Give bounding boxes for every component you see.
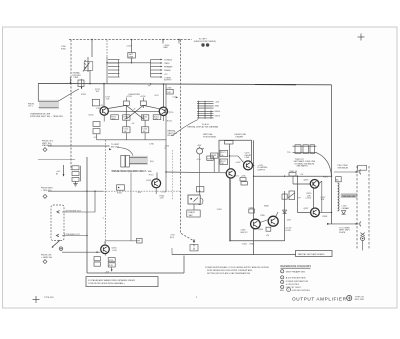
transistor Q714 collector wire [163, 84, 165, 107]
ref item 2 [281, 276, 306, 280]
svg-text:POWER SUPPLIES AND +12V FLOATI: POWER SUPPLIES AND +12V FLOATING SUPPLY … [205, 266, 270, 269]
svg-text:CONDITIONS GIVEN WITH DIAGRAM: CONDITIONS GIVEN WITH DIAGRAM ◇ [88, 282, 125, 285]
label SIGNAL FEEDTHRU PINS [73, 72, 82, 80]
resistor R577 box [241, 182, 247, 185]
svg-text:THRU: THRU [164, 63, 170, 65]
junction dots on collector wire [89, 83, 164, 85]
label VERTICAL POSITIONING [203, 133, 217, 138]
node dots on top rail [91, 39, 180, 41]
junction dots misc [86, 62, 332, 241]
junction cross [193, 240, 195, 242]
lower section dashed edge [104, 140, 106, 256]
wire x=131.5 into rail [131, 58, 133, 63]
input terminator box T740a [121, 155, 125, 167]
svg-text:(DC): (DC) [170, 237, 175, 239]
emitter resistor R712 box [123, 115, 130, 120]
transistor Q704 [100, 107, 108, 115]
svg-text:LINE: LINE [245, 157, 250, 159]
ref item 3 [281, 280, 309, 285]
svg-text:1M: 1M [124, 131, 127, 133]
svg-text:(-75V): (-75V) [306, 198, 312, 200]
label PIN VOLTAGES note [338, 165, 349, 169]
collector wire lower to junction [319, 211, 331, 213]
switch contact block S701 [84, 62, 93, 71]
wire CH2 input [48, 145, 110, 147]
supply stub wires [126, 98, 143, 102]
svg-text:POSITIONING: POSITIONING [203, 137, 217, 139]
wire collector Q743 riser [156, 173, 158, 180]
svg-text:-15V: -15V [137, 192, 142, 194]
svg-text:(DEFLECTION PLATES): (DEFLECTION PLATES) [194, 40, 216, 43]
transistor Q714 [159, 107, 167, 115]
connector feed wires to interconnect [151, 60, 161, 78]
collector wire Q576 to bus [253, 164, 254, 166]
transistor Q586 [268, 216, 278, 226]
bracket line [80, 166, 82, 182]
capacitor C712 box [123, 127, 130, 133]
svg-text:SEE PARTS: SEE PARTS [297, 165, 309, 168]
supply resistor R701 box [92, 99, 99, 106]
main board dashed outline right edge [180, 40, 194, 251]
transistor Q763 [101, 245, 110, 254]
wire A trigger branch [62, 191, 95, 212]
upper plate pin [356, 170, 361, 175]
resistor R748 box [207, 156, 213, 160]
grid connector pin E2 [206, 43, 209, 46]
resistor R572 box [220, 159, 228, 164]
interstage wire y=176.2 [254, 175, 332, 177]
curve from T590 to output wire [316, 152, 332, 176]
emitter link wire [313, 188, 315, 208]
wire x=166 trunk [165, 84, 167, 191]
emitter degeneration wires [104, 115, 163, 140]
svg-text:PINS: PINS [74, 77, 79, 79]
arrowhead trig jack [63, 174, 65, 177]
wire trig signal dashed continuation [103, 190, 180, 192]
svg-text:SETTING BOTH PLATE LOAD TERMIN: SETTING BOTH PLATE LOAD TERMINATIONS [207, 272, 251, 275]
wire from DL70 rising to amp [59, 89, 80, 101]
registration mark bottom-left [33, 296, 40, 303]
collector wire Q586 up [276, 212, 279, 217]
delay line DL740 hatched block [130, 156, 148, 165]
svg-text:+15V: +15V [197, 145, 202, 147]
wire x=293 branch [292, 176, 294, 184]
wire curve into DL drive [117, 148, 133, 156]
scattered value labels [81, 86, 329, 238]
long bus x=253.6 [253, 140, 255, 254]
ref item 1 [281, 270, 306, 274]
wire stub from rail x=92 [91, 40, 93, 58]
label TRANSMISSION LINE [30, 113, 63, 118]
supply arrow -15V [111, 267, 113, 271]
wire into Q763 base [62, 251, 100, 253]
svg-text:THERMAL BAL: THERMAL BAL [342, 195, 357, 198]
capacitor C765 box [94, 262, 100, 266]
wire mid trunk x=131 [130, 173, 132, 241]
svg-text:VERT PREAMP GEN: VERT PREAMP GEN [286, 270, 306, 273]
neon stack box B587 [336, 177, 342, 182]
wire input to Q574 base [166, 171, 226, 174]
grid connector pin E1 [201, 43, 204, 46]
arrowhead junction [327, 223, 330, 225]
main collector wire long horizontal [38, 83, 331, 84]
wire x=321.8 [321, 181, 323, 212]
emitter resistor R721 box [153, 115, 161, 120]
cross-coupling wire A [108, 105, 143, 119]
lever pivot dot [52, 246, 54, 248]
arrowhead into base [97, 251, 100, 253]
svg-text:FAN: FAN [164, 46, 168, 49]
svg-text:+125V: +125V [126, 96, 133, 98]
bottom rail wire y=273 [87, 272, 184, 274]
svg-text:& CIRCUITS N: & CIRCUITS N [286, 284, 300, 286]
wire B trigger branch [62, 235, 87, 237]
rail riser x=184 [183, 256, 185, 274]
node diamond gate [43, 260, 47, 264]
upper plate feed wire [334, 171, 359, 173]
label C700 R700 [61, 46, 67, 50]
label C576 above [245, 153, 252, 160]
wire y=62.8 cross rail [107, 62, 151, 64]
svg-text:CERAM: CERAM [342, 207, 350, 210]
terminator network T590 boxes [293, 145, 317, 154]
delay line DL70 hatched block [39, 100, 59, 109]
relay coil curl [199, 198, 203, 205]
label ±12V SUPPLY [258, 165, 268, 172]
capacitor C707 box [93, 122, 100, 127]
wire Q763 collector riser [104, 241, 106, 245]
wire TP570 drop [229, 144, 231, 169]
label left of Q584 [241, 230, 249, 234]
label L CER [342, 206, 350, 210]
left bus wire x=87 [86, 157, 88, 273]
svg-text:A TRIGGER OUT: A TRIGGER OUT [66, 209, 82, 212]
wire trig signal [48, 190, 103, 192]
transistor Q594 [310, 180, 319, 189]
svg-text:PLATE: PLATE [339, 231, 346, 234]
wire x=90 drop [89, 70, 91, 83]
wire down to delay line input [37, 83, 39, 101]
svg-text:STRIPLINE VERT SIG ─ TERM 93Ω: STRIPLINE VERT SIG ─ TERM 93Ω [30, 116, 63, 118]
wire Q743 emitter down [155, 188, 157, 194]
wire to lower plate pin [328, 223, 359, 225]
svg-text:+1.6V: +1.6V [112, 250, 118, 252]
label left of DL70 [28, 103, 34, 107]
inner board dashed edge [106, 40, 108, 58]
trig jack feed wire [63, 165, 65, 176]
base wire Q586 [260, 220, 268, 223]
svg-text:SHOWN AT: SHOWN AT [338, 167, 349, 170]
transistor Q704 collector wire [103, 84, 105, 107]
base rail wire [108, 110, 159, 112]
transistor Q574 [226, 169, 235, 178]
resistor R753 box [197, 187, 204, 192]
label +12.2V [285, 228, 292, 232]
svg-text:BUF 52: BUF 52 [241, 232, 249, 234]
svg-text:TRACE: TRACE [188, 211, 195, 214]
node diamond CH2 [43, 148, 47, 152]
resistor R707 box [93, 129, 100, 134]
label under T590 [294, 159, 316, 168]
registration mark top-right [358, 34, 365, 41]
svg-text:VOLTAGES AND WAVEFORMS OBTAINE: VOLTAGES AND WAVEFORMS OBTAINED UNDER [88, 279, 135, 282]
svg-text:SEE: SEE [280, 290, 285, 292]
emitter resistor R722 box [141, 115, 148, 120]
CRT boundary dashed right [368, 166, 370, 250]
svg-text:GND: GND [215, 106, 220, 108]
collector load resistor R716 box [140, 101, 146, 105]
wire relay drop [193, 204, 195, 210]
svg-text:R581 56: R581 56 [290, 171, 298, 173]
geometry mesh terminal [360, 233, 364, 236]
resistor R709 box [166, 89, 173, 94]
resistor R576 box [240, 178, 246, 181]
label FROM CH 2 [42, 141, 54, 148]
ground symbol [73, 181, 77, 186]
wire base upper output [293, 183, 310, 185]
contact arrow B [56, 234, 59, 237]
svg-text:+ GATE SIG: + GATE SIG [41, 256, 52, 259]
heavy emitter wire Q574 down [229, 178, 231, 241]
connector arrowheads [161, 59, 163, 78]
label TO VERT SIG OUT [111, 144, 120, 148]
test point box TP570 [224, 141, 233, 144]
collector load resistor R706 box [123, 101, 129, 105]
svg-text:FOR DECOUPLING: FOR DECOUPLING [292, 290, 310, 292]
label R595 group [306, 193, 313, 200]
output connector grid J70 [197, 101, 214, 119]
riser x=172 [171, 248, 173, 255]
wire stub x=179 [178, 40, 180, 44]
wire x=284.6 branch [284, 191, 286, 241]
emitter resistor R711 box [111, 115, 119, 120]
label box TRACE SEP [187, 210, 200, 217]
capacitor C569 box [211, 153, 218, 158]
svg-text:DISPLAY MODE SWITCHING CIRC: DISPLAY MODE SWITCHING CIRCUIT [111, 170, 147, 173]
switch box dashed S764 [51, 205, 64, 241]
thermistor box RT701 [128, 53, 136, 59]
relay K741 box [188, 195, 200, 204]
svg-text:PARTIAL VERT AMP BOARD: PARTIAL VERT AMP BOARD [298, 253, 325, 256]
switch SW701 lever [83, 57, 90, 72]
small box right [358, 165, 367, 170]
svg-text:Q574: Q574 [234, 176, 240, 178]
inner dashed edge mid [172, 150, 174, 200]
wire stub x=131.5 [131, 40, 133, 53]
switch lever SW760 [53, 240, 61, 247]
svg-text:8.2K: 8.2K [109, 265, 114, 267]
svg-text:SUPPLY: SUPPLY [258, 169, 266, 171]
label FROM PLUG-IN [41, 255, 52, 259]
wire base link to Q576 [230, 156, 244, 163]
label FROM VERT PLUG-IN [41, 188, 54, 192]
diode CR587 [342, 211, 346, 215]
supply arrow -15V Q743 [137, 192, 142, 194]
wire C707 to rail [96, 134, 98, 140]
stub wire y=159.5 [38, 159, 75, 161]
svg-text:SIG B: SIG B [215, 115, 221, 117]
diode CR582 [283, 210, 287, 213]
wire base lower output [298, 176, 311, 212]
transistor Q584 [251, 219, 261, 229]
resistor R581 box above wire [289, 173, 296, 176]
wire stub x=163 with label [162, 40, 164, 44]
connector pin labels [215, 101, 221, 117]
capacitor C703 box [78, 80, 84, 87]
test point pointer 2 [70, 77, 72, 84]
resistor R767 box [108, 263, 115, 267]
notes paragraph [205, 266, 270, 275]
resistor R586 box [266, 227, 271, 231]
title diagram symbol [347, 295, 352, 300]
svg-text:1.5K: 1.5K [160, 198, 165, 200]
emitter bottom rail [97, 139, 166, 141]
switch contact box S760c [72, 177, 79, 181]
svg-text:SUPPLY: SUPPLY [164, 80, 172, 82]
main board dashed outline left edge [70, 40, 72, 171]
resistor R582 box [282, 194, 287, 199]
emitter rail y=240.8 [230, 240, 285, 242]
resistor R766 box [108, 258, 115, 262]
svg-text:STAGE: STAGE [164, 69, 171, 72]
transistor Q576 [244, 161, 253, 170]
svg-text:+1.4V: +1.4V [161, 191, 167, 193]
partial vert board box [296, 250, 332, 256]
resistor R762 box [137, 238, 143, 243]
collector riser upper output [319, 181, 322, 184]
ref footnote [280, 288, 310, 292]
transistor Q597 [311, 208, 320, 217]
pot wiper wire down [199, 154, 201, 195]
label DELAY LINE DRIVER [235, 133, 247, 138]
resistor R765 box [94, 257, 100, 261]
svg-text:375K: 375K [109, 260, 114, 262]
svg-text:1M: 1M [143, 131, 146, 133]
svg-text:WITH SERIES RES THIS UPPER CUR: WITH SERIES RES THIS UPPER CURRENT AND [207, 269, 253, 272]
ref item 4 [281, 285, 302, 289]
long output wire x=331.5 [331, 85, 333, 224]
resistor R583 box [249, 209, 255, 213]
svg-text:(DL): (DL) [150, 161, 154, 163]
connector destination labels [164, 58, 173, 81]
CRT boundary dashed left [356, 166, 358, 250]
mesh connector circle [361, 237, 365, 241]
svg-text:CONN A: CONN A [164, 58, 172, 61]
label TO UPPER PLATE [339, 227, 351, 234]
resistor R571 box [220, 150, 228, 156]
arrow into delay line 2 [109, 148, 112, 150]
cross-coupling wire B [126, 105, 159, 119]
resistor R764 box [190, 245, 198, 251]
capacitor C722 box [141, 127, 148, 133]
svg-text:PARTIAL DISPLAY SW DIAGRAM: PARTIAL DISPLAY SW DIAGRAM [188, 126, 219, 129]
notes box voltages/waveforms [86, 277, 158, 287]
input terminator box T740b [126, 155, 130, 167]
svg-text:SIG A: SIG A [215, 110, 221, 113]
svg-text:REV 1969: REV 1969 [355, 299, 365, 301]
svg-text:A & B TRIGGER GEN: A & B TRIGGER GEN [286, 277, 306, 280]
potentiometer R747 [197, 147, 204, 155]
lower plate pin [356, 222, 361, 227]
long bottom rail y=254.6 [172, 254, 296, 256]
switch contact box S760a [72, 166, 79, 170]
svg-text:-15V: -15V [197, 159, 202, 161]
node diamond vert [43, 194, 47, 198]
svg-text:-0.05V: -0.05V [285, 230, 292, 232]
svg-text:DRIVER: DRIVER [236, 137, 244, 139]
svg-text:+4.3V: +4.3V [235, 162, 241, 164]
heavy segment of collector wire [255, 84, 296, 86]
connector circle E760 [59, 247, 63, 251]
svg-text:TYPE 556: TYPE 556 [44, 297, 54, 299]
resistor R741 box with dot [117, 185, 125, 190]
wire C569 drop [213, 158, 215, 172]
leader curve to grid [172, 120, 198, 137]
label PARTIAL A11 pointer [168, 130, 178, 138]
svg-text:B TRIGGER OUT: B TRIGGER OUT [64, 234, 81, 236]
variable resistor R593 box [289, 191, 295, 200]
svg-text:PREAMP: PREAMP [164, 65, 173, 68]
title rev note [355, 297, 365, 301]
wire mesh down [362, 241, 364, 251]
transistor Q743 [152, 179, 161, 188]
svg-text:REFERENCE DIAGRAMS: REFERENCE DIAGRAMS [280, 264, 311, 268]
wire y=240.8 lower [105, 240, 140, 242]
test point pointer [81, 79, 83, 89]
switch wafer ladder [107, 57, 120, 83]
shaded label box [341, 193, 357, 197]
svg-text:OUTPUT AMPLIFIER: OUTPUT AMPLIFIER [292, 297, 347, 302]
svg-text:DRM: DRM [129, 56, 134, 58]
main board dashed outline top edge [69, 39, 192, 41]
switch contact box S760b [72, 172, 79, 176]
wire +12V top rail [219, 140, 251, 172]
svg-text:SEP: SEP [189, 215, 194, 217]
contact arrow A [57, 211, 60, 214]
inductor L587 bumps [338, 183, 339, 211]
stub arrow left of dashed edge [173, 96, 179, 98]
